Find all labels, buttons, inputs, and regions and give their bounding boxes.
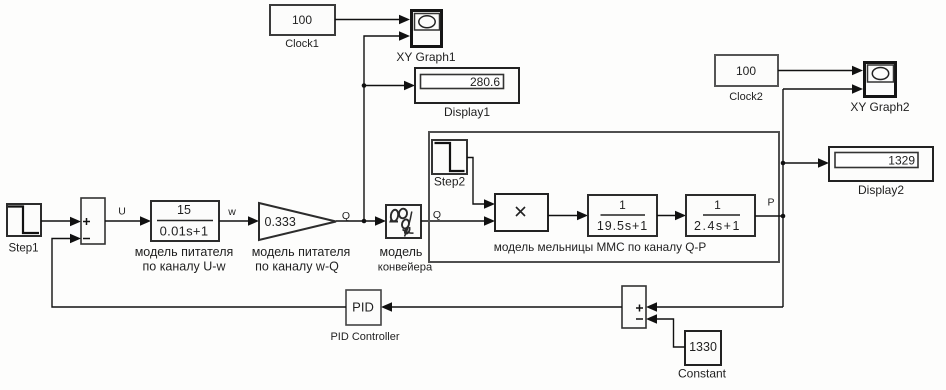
svg-text:Step2: Step2 xyxy=(434,175,466,189)
svg-text:Clock1: Clock1 xyxy=(285,38,319,50)
svg-text:1: 1 xyxy=(619,198,626,212)
sum block Sum2 xyxy=(622,286,646,328)
wire branch to Display1 xyxy=(364,81,415,91)
display Display1 xyxy=(415,68,519,119)
wire TF3 to right vertical, node P xyxy=(755,197,783,217)
svg-text:Step1: Step1 xyxy=(8,243,38,255)
svg-text:XY Graph2: XY Graph2 xyxy=(850,100,909,114)
wire TF1 to Gain, node w xyxy=(219,206,259,226)
multiply block xyxy=(495,194,548,231)
svg-text:1: 1 xyxy=(714,198,721,212)
svg-text:по каналу U-w: по каналу U-w xyxy=(143,260,227,274)
block conveyor model (модель конвейера) xyxy=(378,205,433,274)
svg-text:U: U xyxy=(118,206,126,218)
svg-text:Constant: Constant xyxy=(678,367,727,381)
svg-text:Q: Q xyxy=(433,209,441,221)
svg-text:w: w xyxy=(227,206,236,218)
svg-text:модель мельницы ММС по каналу: модель мельницы ММС по каналу Q-P xyxy=(494,240,707,254)
block PID Controller xyxy=(330,290,399,343)
sum block Sum1 xyxy=(81,198,105,244)
wire PID output feedback to Sum1 minus xyxy=(52,239,346,308)
wire branch to Display2 xyxy=(783,158,829,168)
svg-text:Clock2: Clock2 xyxy=(729,91,763,103)
node junction Display2 branch xyxy=(781,161,786,166)
svg-text:100: 100 xyxy=(292,13,312,27)
block Step2 xyxy=(432,140,467,189)
svg-text:1330: 1330 xyxy=(689,340,717,354)
svg-text:280.6: 280.6 xyxy=(470,75,500,89)
wire multiply to TF2 xyxy=(548,211,588,221)
svg-text:XY Graph1: XY Graph1 xyxy=(396,50,455,64)
wire Sum1 to TF1, node U xyxy=(105,206,151,226)
wire feedback rail to Sum2 plus xyxy=(646,302,783,312)
wire to XY Graph2 input2 xyxy=(783,84,863,94)
wire right vertical rail xyxy=(782,89,784,307)
svg-text:PID: PID xyxy=(352,300,374,315)
gain triangle 0.333 xyxy=(252,203,351,274)
wire conveyor to multiply, node Q xyxy=(421,209,495,226)
svg-text:0.01s+1: 0.01s+1 xyxy=(160,224,209,239)
arrow into Sum1 minus xyxy=(70,234,81,244)
svg-text:Display2: Display2 xyxy=(858,183,904,197)
transfer function TF3 1/(2.4s+1) xyxy=(686,195,755,236)
svg-text:PID Controller: PID Controller xyxy=(330,331,399,343)
block Clock2 xyxy=(715,55,778,103)
svg-text:100: 100 xyxy=(736,64,756,78)
svg-text:P: P xyxy=(767,197,774,209)
svg-text:модель: модель xyxy=(380,245,423,259)
wire Q-branch vertical to XY Graph1 input2 xyxy=(364,31,410,221)
subsystem box модель мельницы MMC xyxy=(429,132,779,262)
svg-text:15: 15 xyxy=(177,203,191,217)
svg-text:1329: 1329 xyxy=(888,154,915,168)
svg-text:Q: Q xyxy=(342,210,350,222)
svg-text:конвейера: конвейера xyxy=(378,262,433,274)
node junction P xyxy=(781,214,786,219)
svg-text:модель питателя: модель питателя xyxy=(135,245,234,259)
block Step1 xyxy=(7,204,41,255)
wire Clock1 to XY Graph1 input1 xyxy=(335,15,410,25)
wire Step1 to Sum1 xyxy=(41,217,81,227)
wire Step2 to multiply top input xyxy=(467,158,495,209)
transfer function TF1 15/(0.01s+1) xyxy=(135,201,234,274)
svg-text:модель питателя: модель питателя xyxy=(252,245,351,259)
svg-text:2.4s+1: 2.4s+1 xyxy=(694,219,741,233)
wire Clock2 to XY Graph2 input1 xyxy=(778,66,863,76)
display Display2 xyxy=(829,147,933,197)
block Clock1 xyxy=(270,5,335,50)
node junction on Q wire xyxy=(362,219,367,224)
wire Sum2 to PID xyxy=(381,302,622,312)
wire TF2 to TF3 xyxy=(657,211,686,221)
transfer function TF2 1/(19.5s+1) xyxy=(588,195,657,236)
svg-text:0.333: 0.333 xyxy=(265,215,296,229)
wire Constant to Sum2 minus xyxy=(646,314,685,347)
scope XY Graph2 xyxy=(850,63,909,115)
node junction on Q branch at Display1 xyxy=(362,83,367,88)
svg-text:Display1: Display1 xyxy=(444,105,490,119)
wire Gain to conveyor, node Q xyxy=(336,210,386,226)
svg-text:по каналу w-Q: по каналу w-Q xyxy=(255,260,339,274)
block Constant 1330 xyxy=(678,331,727,381)
scope XY Graph1 xyxy=(396,11,455,65)
svg-text:19.5s+1: 19.5s+1 xyxy=(597,219,648,233)
